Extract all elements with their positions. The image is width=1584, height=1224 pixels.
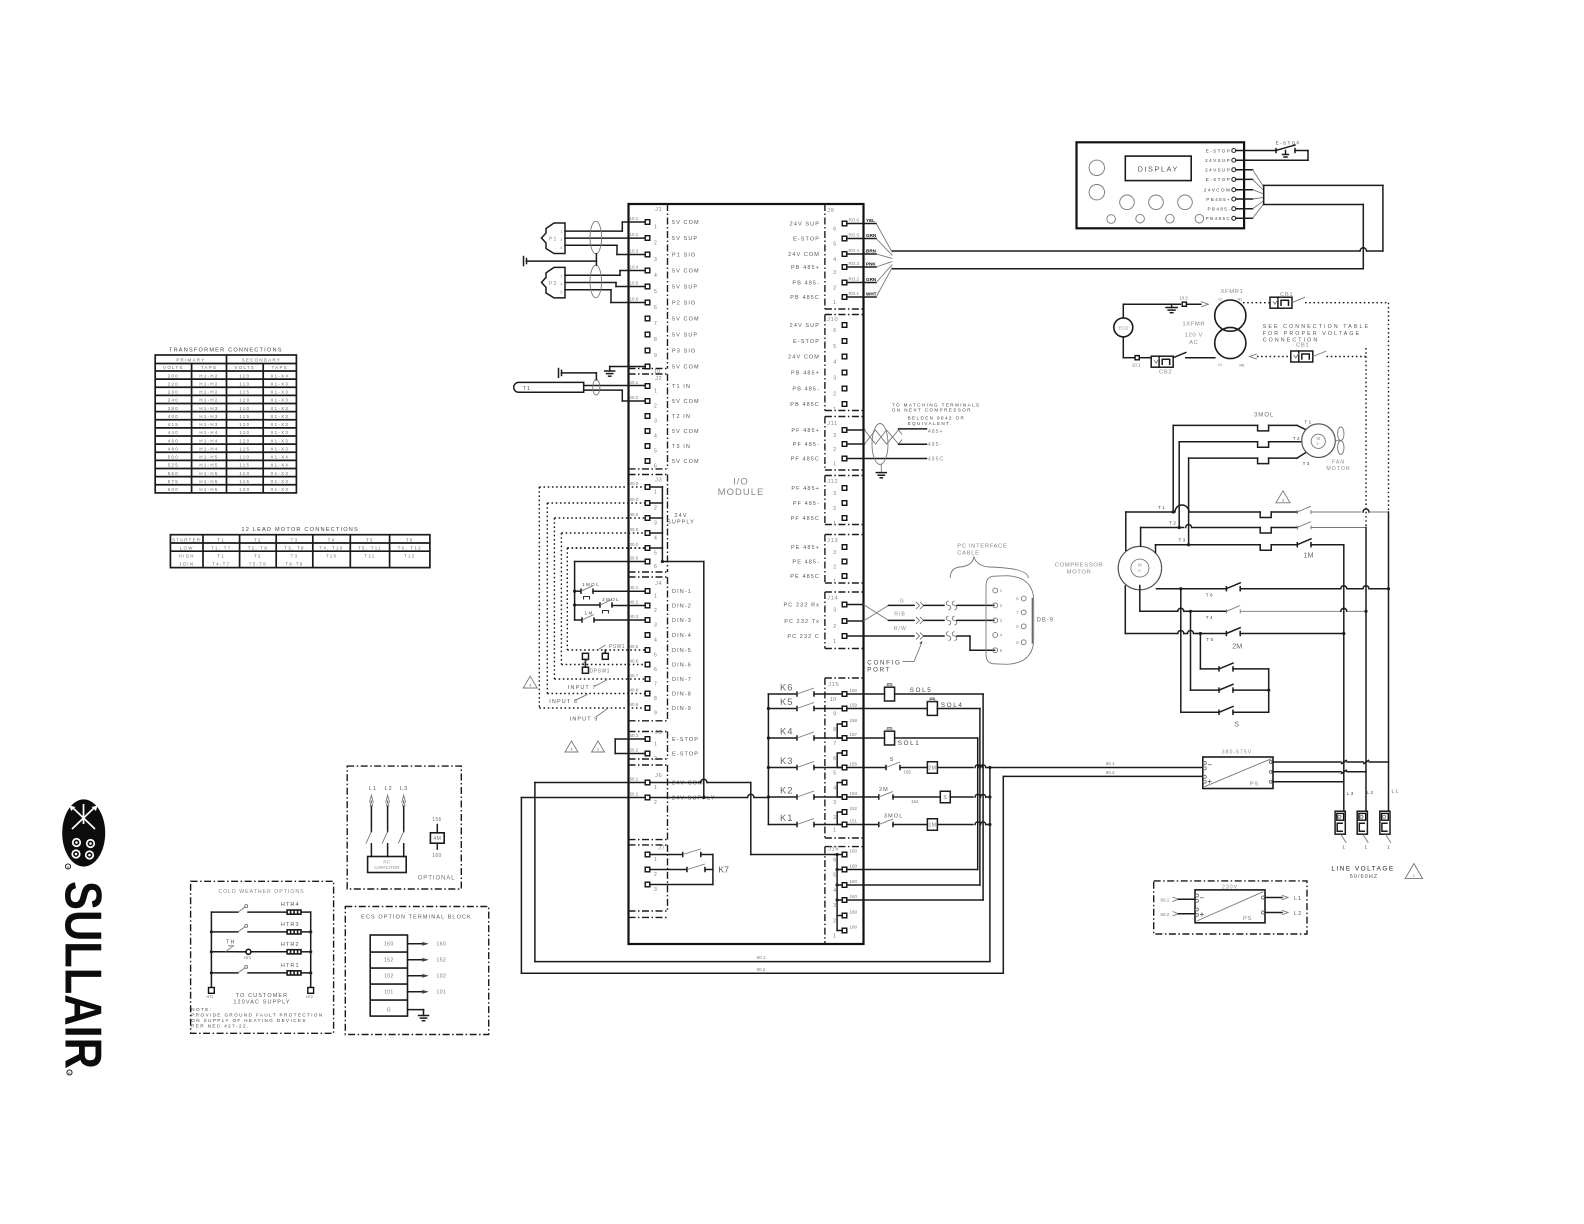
svg-text:T5: T5 <box>1206 637 1214 642</box>
contact 3MOL and coil 1M on wire 151 <box>847 814 992 831</box>
svg-text:5V SUP: 5V SUP <box>672 332 698 338</box>
svg-text:J9: J9 <box>827 208 834 214</box>
svg-text:1XFMR: 1XFMR <box>1182 322 1205 328</box>
svg-text:30.0: 30.0 <box>630 527 639 532</box>
contactor 1M row T2 <box>1141 521 1366 534</box>
connector J3 bay <box>629 475 668 573</box>
svg-text:4: 4 <box>561 238 563 242</box>
motor COMPRESSOR MOTOR <box>1055 546 1162 589</box>
svg-text:3MOL: 3MOL <box>884 814 903 820</box>
svg-text:3~: 3~ <box>1316 442 1320 446</box>
ground shield T1 <box>559 369 597 380</box>
svg-text:24V COM: 24V COM <box>788 252 820 258</box>
box OPTIONAL P.F. capacitor <box>347 766 461 889</box>
connector J1 bay <box>629 204 668 369</box>
svg-text:4: 4 <box>529 684 531 688</box>
display panel enclosure <box>1077 142 1245 228</box>
svg-text:3: 3 <box>654 419 657 425</box>
svg-text:VOLTS: VOLTS <box>235 365 256 370</box>
svg-text:3: 3 <box>654 623 657 629</box>
svg-text:GRN: GRN <box>866 277 877 282</box>
svg-text:4: 4 <box>654 434 657 440</box>
svg-text:154: 154 <box>911 799 919 804</box>
svg-text:PF 485-: PF 485- <box>793 501 820 507</box>
wire R/W to DB9 pin5 <box>864 626 995 650</box>
svg-text:1M: 1M <box>928 823 936 829</box>
connector J10 bay <box>825 315 864 411</box>
svg-text:2: 2 <box>654 241 657 247</box>
transducer P1 connector <box>542 223 566 254</box>
svg-text:T10: T10 <box>326 554 337 559</box>
svg-text:PER NEC 427-22.: PER NEC 427-22. <box>191 1023 249 1028</box>
svg-text:PE 485-: PE 485- <box>792 559 820 565</box>
svg-text:10: 10 <box>654 369 660 375</box>
svg-text:3MOL: 3MOL <box>602 597 620 602</box>
svg-text:24VSUP: 24VSUP <box>1205 158 1231 163</box>
svg-text:24V SUP: 24V SUP <box>790 323 820 329</box>
svg-text:T1: T1 <box>523 386 532 392</box>
svg-text:TAPS: TAPS <box>201 365 217 370</box>
svg-text:600: 600 <box>168 487 179 492</box>
svg-text:4: 4 <box>833 359 836 365</box>
table: TRANSFORMER CONNECTIONS title <box>169 348 283 354</box>
svg-text:DPSW1: DPSW1 <box>590 669 610 675</box>
svg-text:RO.1: RO.1 <box>849 291 860 296</box>
transformer XFMR1 <box>1215 289 1246 368</box>
svg-text:2M: 2M <box>1232 642 1242 651</box>
svg-text:S: S <box>943 795 947 801</box>
contactor 2M row T4 <box>1140 586 1368 620</box>
svg-text:7: 7 <box>654 682 657 688</box>
svg-text:H1-H4: H1-H4 <box>199 438 218 443</box>
svg-text:H1-H2: H1-H2 <box>199 373 218 378</box>
svg-text:DB-9: DB-9 <box>1037 617 1054 624</box>
svg-text:12 LEAD MOTOR CONNECTIONS: 12 LEAD MOTOR CONNECTIONS <box>241 527 359 533</box>
svg-text:40.8: 40.8 <box>630 688 639 693</box>
svg-text:M: M <box>1317 436 1321 441</box>
svg-text:240: 240 <box>168 398 179 403</box>
svg-text:TAPS: TAPS <box>272 365 288 370</box>
svg-text:E-STOP: E-STOP <box>1206 177 1231 182</box>
circuit breaker CB1 top <box>1243 292 1389 308</box>
svg-text:5V COM: 5V COM <box>672 316 700 322</box>
connector J16 <box>828 847 858 940</box>
svg-text:E-STOP: E-STOP <box>1206 148 1231 153</box>
label INPUT 9 <box>570 709 607 722</box>
display terminal pins <box>1204 148 1236 221</box>
svg-text:3: 3 <box>833 270 836 276</box>
label 1XFMR 120V AC <box>1182 322 1205 347</box>
svg-text:BRN: BRN <box>866 249 877 254</box>
svg-text:SOL4: SOL4 <box>941 702 964 709</box>
svg-text:G: G <box>387 1007 391 1013</box>
svg-text:HT2: HT2 <box>306 995 313 999</box>
svg-text:160: 160 <box>850 894 858 899</box>
label LINE VOLTAGE 50/60HZ <box>1331 866 1394 880</box>
svg-text:8: 8 <box>654 696 657 702</box>
wire 24V supply J3.6 to J6.2 vertical <box>662 562 705 800</box>
svg-text:2: 2 <box>833 285 836 291</box>
relay contact K5 <box>768 696 842 711</box>
svg-text:3: 3 <box>654 887 657 893</box>
svg-text:1: 1 <box>833 521 836 527</box>
svg-text:PB 485+: PB 485+ <box>791 265 820 271</box>
contact S star row 2 <box>1191 611 1271 692</box>
svg-text:24V: 24V <box>674 513 687 519</box>
logo: SULLAIR wordmark <box>54 881 112 1075</box>
svg-text:H1-H2: H1-H2 <box>199 398 218 403</box>
svg-text:DIN-9: DIN-9 <box>672 706 692 712</box>
wire 60.1 into 230V PS <box>1161 897 1196 903</box>
svg-text:110: 110 <box>239 381 250 386</box>
svg-text:8: 8 <box>654 337 657 343</box>
wire 60.2 to power supply PS <box>1003 770 1203 776</box>
svg-text:PB485+: PB485+ <box>1206 197 1231 202</box>
svg-text:R/W: R/W <box>894 626 907 632</box>
svg-text:40.2: 40.2 <box>630 600 639 605</box>
svg-text:PB 485C: PB 485C <box>790 402 820 408</box>
svg-text:X1-X3: X1-X3 <box>270 471 289 476</box>
svg-text:P1 SIG: P1 SIG <box>672 252 696 258</box>
svg-text:TH: TH <box>226 940 236 946</box>
svg-text:J15: J15 <box>828 682 839 688</box>
svg-text:2: 2 <box>654 506 657 512</box>
svg-text:ECS OPTION TERMINAL BLOCK: ECS OPTION TERMINAL BLOCK <box>361 914 472 920</box>
svg-text:K2: K2 <box>780 785 793 796</box>
svg-text:110: 110 <box>239 455 250 460</box>
svg-text:SOL5: SOL5 <box>910 687 933 694</box>
svg-text:T3: T3 <box>291 537 299 542</box>
svg-text:L1: L1 <box>1392 789 1400 794</box>
svg-text:158: 158 <box>850 718 858 723</box>
svg-text:5V COM: 5V COM <box>672 429 700 435</box>
svg-text:L3: L3 <box>1347 791 1355 796</box>
svg-text:3: 3 <box>833 433 836 439</box>
labels wire colors at J9 <box>866 218 877 297</box>
svg-text:10.1: 10.1 <box>630 216 639 221</box>
connector J11 <box>791 421 847 467</box>
relay contact K2 <box>768 785 842 800</box>
svg-text:1: 1 <box>1387 845 1391 850</box>
connector J4 <box>630 581 692 717</box>
svg-text:YEL: YEL <box>866 218 875 223</box>
svg-text:ECO: ECO <box>1119 326 1129 331</box>
bus vertical L2 <box>1365 348 1367 811</box>
wire PS output to L1 <box>1272 760 1388 764</box>
svg-text:FOR PROPER VOLTAGE: FOR PROPER VOLTAGE <box>1263 331 1362 337</box>
jumper J15 pin pairs <box>837 724 842 825</box>
svg-text:P3 SIG: P3 SIG <box>672 348 696 354</box>
wire SOL5 return to J16.3 <box>847 694 983 900</box>
svg-text:E-STOP: E-STOP <box>793 236 820 242</box>
svg-text:H1-H3: H1-H3 <box>199 414 218 419</box>
svg-text:L1: L1 <box>369 786 377 792</box>
svg-text:4: 4 <box>561 283 563 287</box>
connector J9 bay <box>825 204 864 309</box>
wire motor leads T1 T2 T3 <box>1126 512 1156 553</box>
svg-text:J4: J4 <box>655 581 663 587</box>
connector J1 <box>630 207 700 375</box>
svg-text:5: 5 <box>833 872 836 878</box>
svg-text:DIN-5: DIN-5 <box>672 648 692 654</box>
svg-text:24VSUP: 24VSUP <box>1205 168 1231 173</box>
svg-text:9: 9 <box>654 711 657 717</box>
connector J14 bay <box>825 592 864 649</box>
svg-text:−: − <box>1207 761 1212 770</box>
svg-text:X1-X4: X1-X4 <box>270 455 289 460</box>
svg-text:VOLTS: VOLTS <box>163 365 184 370</box>
warning triangle 4 near J5 <box>565 741 578 752</box>
svg-text:5: 5 <box>654 449 657 455</box>
svg-text:PORT: PORT <box>867 667 891 674</box>
svg-text:1: 1 <box>833 579 836 585</box>
svg-text:E-STOP: E-STOP <box>672 737 699 743</box>
svg-text:MOTOR: MOTOR <box>1326 466 1350 472</box>
svg-text:RO.2: RO.2 <box>849 276 860 281</box>
svg-text:120: 120 <box>239 398 250 403</box>
svg-text:INPUT 7: INPUT 7 <box>568 685 597 691</box>
label CONFIG PORT <box>867 641 922 674</box>
svg-text:T5, T11: T5, T11 <box>358 546 382 551</box>
svg-text:GRN: GRN <box>866 233 877 238</box>
svg-text:HTR4: HTR4 <box>281 902 300 908</box>
svg-text:60.2: 60.2 <box>1161 912 1170 917</box>
svg-text:+: + <box>1200 910 1205 919</box>
table: TRANSFORMER CONNECTIONS grid <box>155 355 296 493</box>
svg-text:24V-SUPPLY: 24V-SUPPLY <box>672 795 716 801</box>
svg-text:J14: J14 <box>827 596 838 602</box>
svg-text:E-STOP: E-STOP <box>1276 141 1301 146</box>
svg-text:1: 1 <box>833 407 836 413</box>
wire 60.1 to power supply PS <box>990 761 1203 768</box>
svg-text:PB 485-: PB 485- <box>792 386 820 392</box>
svg-text:T3: T3 <box>1303 461 1311 466</box>
svg-text:200: 200 <box>168 373 179 378</box>
jumper J5 E-STOP loop <box>615 739 645 754</box>
svg-text:1: 1 <box>561 230 563 234</box>
svg-text:L1: L1 <box>1294 896 1302 902</box>
label I/O MODULE <box>718 477 765 499</box>
temperature probe T1 <box>514 382 584 392</box>
svg-text:DISPLAY: DISPLAY <box>1138 165 1179 174</box>
connector J2 <box>630 376 700 470</box>
svg-text:157: 157 <box>850 732 858 737</box>
svg-text:4: 4 <box>571 748 573 752</box>
svg-text:60.1: 60.1 <box>1106 761 1115 766</box>
svg-text:J11: J11 <box>827 421 838 427</box>
svg-text:380-575V: 380-575V <box>1222 750 1253 756</box>
svg-text:STARTER: STARTER <box>172 537 201 542</box>
svg-text:3: 3 <box>833 491 836 497</box>
svg-text:160: 160 <box>850 848 858 853</box>
svg-text:J13: J13 <box>827 538 838 544</box>
svg-text:152: 152 <box>850 806 858 811</box>
svg-text:5: 5 <box>654 653 657 659</box>
svg-text:2: 2 <box>654 608 657 614</box>
svg-text:J1: J1 <box>655 207 662 213</box>
svg-text:X1-X3: X1-X3 <box>270 438 289 443</box>
svg-text:T6-T9: T6-T9 <box>285 561 303 566</box>
label SEE CONNECTION TABLE <box>1263 324 1370 344</box>
svg-text:EQUIVALENT.: EQUIVALENT. <box>908 421 953 426</box>
ground shield P1/P2 <box>524 254 597 266</box>
svg-text:440: 440 <box>168 430 179 435</box>
svg-text:10.5: 10.5 <box>630 281 639 286</box>
svg-text:H1-H3: H1-H3 <box>199 422 218 427</box>
svg-text:60.2: 60.2 <box>757 967 766 972</box>
relay contact K6 <box>768 682 842 697</box>
svg-text:30.0: 30.0 <box>630 497 639 502</box>
svg-text:T2 IN: T2 IN <box>672 414 691 420</box>
svg-text:PB 485-: PB 485- <box>792 280 820 286</box>
connector J7 bay <box>629 845 668 911</box>
svg-text:6: 6 <box>833 756 836 762</box>
svg-text:SEE CONNECTION TABLE: SEE CONNECTION TABLE <box>1263 324 1370 330</box>
svg-text:T6, T12: T6, T12 <box>398 546 422 551</box>
svg-text:NOTE:: NOTE: <box>191 1007 212 1012</box>
svg-text:24V COM: 24V COM <box>788 354 820 360</box>
svg-text:CABLE: CABLE <box>957 551 979 557</box>
svg-text:T3: T3 <box>291 554 299 559</box>
svg-text:L2: L2 <box>1367 790 1375 795</box>
wire dotted J3.5 to DIN-5 via PSW1 <box>567 547 645 549</box>
svg-text:2: 2 <box>833 815 836 821</box>
svg-text:485C: 485C <box>928 456 944 462</box>
svg-text:HIGH: HIGH <box>179 554 195 559</box>
svg-text:H1-H5: H1-H5 <box>199 479 218 484</box>
svg-text:H1: H1 <box>1238 297 1243 301</box>
svg-text:X1-X3: X1-X3 <box>270 390 289 395</box>
svg-text:S: S <box>890 757 895 763</box>
connector J9 <box>788 208 859 306</box>
svg-text:CONFIG: CONFIG <box>867 660 901 667</box>
svg-text:2M: 2M <box>879 787 889 793</box>
svg-text:MOTOR: MOTOR <box>1067 570 1092 576</box>
svg-text:PF 485C: PF 485C <box>791 456 820 462</box>
svg-text:5V COM: 5V COM <box>672 364 700 370</box>
svg-text:1: 1 <box>1365 845 1369 850</box>
svg-text:24V SUP: 24V SUP <box>790 221 820 227</box>
svg-text:P1: P1 <box>549 237 557 243</box>
warning triangle 2 near J5 <box>592 741 605 752</box>
svg-text:10: 10 <box>830 697 836 703</box>
fuse L3 <box>1335 811 1346 850</box>
svg-text:INPUT 8: INPUT 8 <box>549 699 578 705</box>
connector J13 <box>790 538 847 585</box>
svg-text:24V-COM: 24V-COM <box>672 780 704 786</box>
relay contact K3 <box>768 755 842 770</box>
contact 2M and coil S on wire 154 <box>847 787 992 804</box>
svg-text:J7: J7 <box>658 846 665 852</box>
svg-text:PB 485C: PB 485C <box>790 295 820 301</box>
svg-text:RO.6: RO.6 <box>849 217 860 222</box>
wire dotted sensor loop harness <box>539 487 645 708</box>
svg-text:COMPRESSOR: COMPRESSOR <box>1055 563 1104 569</box>
svg-text:20.2: 20.2 <box>630 395 639 400</box>
svg-text:3: 3 <box>833 375 836 381</box>
svg-text:1: 1 <box>833 639 836 645</box>
svg-text:X1-X3: X1-X3 <box>270 414 289 419</box>
warning triangle 4 near inputs <box>523 676 537 688</box>
svg-text:J16: J16 <box>828 847 839 853</box>
connector J5 <box>630 730 699 762</box>
svg-text:DIN-1: DIN-1 <box>672 589 692 595</box>
svg-text:T2: T2 <box>254 554 262 559</box>
wire ECO to CB2 to X1 <box>1123 337 1151 368</box>
svg-text:4: 4 <box>654 273 657 279</box>
wire display ribbon cable <box>1236 170 1383 269</box>
svg-text:1M: 1M <box>585 611 594 616</box>
svg-text:30.0: 30.0 <box>630 542 639 547</box>
svg-text:40.7: 40.7 <box>630 673 639 678</box>
economizer ECO device circle <box>1114 318 1133 337</box>
svg-text:5: 5 <box>654 289 657 295</box>
svg-text:1: 1 <box>833 461 836 467</box>
svg-text:I/O: I/O <box>733 477 749 488</box>
svg-text:WHT: WHT <box>866 292 877 297</box>
contact 1M aux on DIN-3 <box>575 611 646 623</box>
svg-text:H1-H5: H1-H5 <box>199 487 218 492</box>
svg-text:2: 2 <box>833 918 836 924</box>
wire fan branch risers <box>1172 425 1191 546</box>
svg-text:G: G <box>900 598 905 604</box>
svg-text:5: 5 <box>833 344 836 350</box>
svg-text:2: 2 <box>833 506 836 512</box>
svg-text:CONNECTION: CONNECTION <box>1263 338 1320 344</box>
svg-text:6: 6 <box>654 305 657 311</box>
svg-text:101: 101 <box>384 990 394 996</box>
svg-text:T2, T8: T2, T8 <box>248 546 268 551</box>
ground at J1 pin 10 <box>605 367 646 377</box>
svg-text:115: 115 <box>239 446 250 451</box>
circuit breaker CB2 <box>1151 353 1215 376</box>
svg-text:RO.3: RO.3 <box>849 261 860 266</box>
svg-text:3: 3 <box>833 903 836 909</box>
svg-text:T6: T6 <box>1206 593 1214 598</box>
svg-text:X1-X3: X1-X3 <box>270 398 289 403</box>
svg-text:K4: K4 <box>780 726 793 737</box>
connector J14 <box>784 596 847 645</box>
svg-text:152: 152 <box>437 958 447 964</box>
svg-text:2: 2 <box>833 564 836 570</box>
table: 12 LEAD MOTOR CONNECTIONS grid <box>170 535 430 568</box>
svg-text:X1-X4: X1-X4 <box>270 463 289 468</box>
svg-text:10.2: 10.2 <box>1179 296 1188 301</box>
svg-text:MODULE: MODULE <box>718 487 765 498</box>
svg-text:PROVIDE GROUND FAULT PROTECTIO: PROVIDE GROUND FAULT PROTECTION <box>191 1012 323 1017</box>
warning triangle 3 <box>1276 491 1290 503</box>
svg-text:1: 1 <box>1342 845 1346 850</box>
connector J10 <box>788 317 847 413</box>
svg-text:159: 159 <box>850 702 858 707</box>
svg-text:153: 153 <box>850 791 858 796</box>
svg-text:2: 2 <box>833 391 836 397</box>
relay contact K1 <box>768 812 842 827</box>
svg-text:P.F.: P.F. <box>383 860 390 865</box>
svg-text:J3: J3 <box>655 478 663 484</box>
connector DB-9 <box>986 576 1054 665</box>
svg-text:60.2: 60.2 <box>1106 770 1115 775</box>
pressure switch PSW1 on DIN-5 <box>598 644 625 659</box>
svg-text:R/B: R/B <box>894 612 906 618</box>
shield ellipse P2 cable <box>590 265 602 298</box>
svg-text:10.2: 10.2 <box>630 232 639 237</box>
svg-text:SULLAIR: SULLAIR <box>54 881 112 1069</box>
svg-text:160: 160 <box>850 909 858 914</box>
svg-text:T1: T1 <box>1158 505 1166 510</box>
svg-text:K1: K1 <box>780 812 793 823</box>
connector J5 bay <box>629 732 668 760</box>
